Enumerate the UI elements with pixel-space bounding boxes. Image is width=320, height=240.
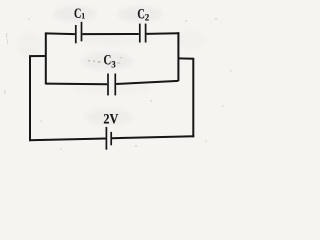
svg-text:2: 2 — [145, 12, 150, 22]
svg-text:2V: 2V — [103, 112, 118, 128]
svg-text:3: 3 — [111, 59, 116, 69]
svg-text:C: C — [104, 53, 112, 69]
svg-text:C: C — [74, 6, 81, 22]
svg-text:1: 1 — [81, 11, 85, 20]
